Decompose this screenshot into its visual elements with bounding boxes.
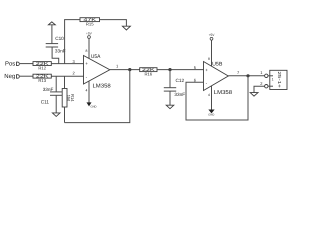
junction output node bbox=[128, 68, 131, 71]
supply +5V arrow top-left bbox=[48, 22, 55, 44]
wire U5A feedback rail bbox=[65, 70, 130, 123]
resistor R15 bbox=[80, 17, 100, 26]
wire Pos to R12 bbox=[20, 63, 33, 65]
svg-text:U5A: U5A bbox=[91, 54, 101, 60]
svg-text:R12: R12 bbox=[38, 65, 46, 70]
svg-text:8: 8 bbox=[86, 49, 88, 53]
wire R12 to U5A pin3 bbox=[51, 63, 83, 65]
svg-text:R14: R14 bbox=[70, 94, 75, 102]
svg-text:+: + bbox=[85, 61, 88, 66]
wire R15 right to gnd arrow bbox=[100, 20, 127, 27]
svg-text:4: 4 bbox=[86, 88, 88, 92]
resistor R12 bbox=[33, 61, 51, 70]
wire Neg to R13 bbox=[20, 75, 33, 77]
capacitor C11 bbox=[41, 87, 63, 104]
op-amp U5A bbox=[84, 54, 111, 89]
wire R15 left to Pos net bbox=[65, 20, 80, 64]
wire C10 to Pos net bbox=[52, 47, 59, 64]
svg-text:GND: GND bbox=[208, 113, 214, 116]
svg-text:R15: R15 bbox=[86, 21, 94, 26]
connector X2 bbox=[265, 70, 287, 89]
junction U5B output node bbox=[246, 74, 249, 77]
svg-text:+: + bbox=[205, 68, 208, 73]
svg-text:U5B: U5B bbox=[212, 62, 223, 68]
junction C12 node bbox=[168, 68, 171, 71]
resistor R14 vertical bbox=[62, 89, 75, 108]
svg-text:LM358: LM358 bbox=[93, 84, 111, 90]
svg-text:33nF: 33nF bbox=[43, 87, 54, 92]
svg-text:+5V: +5V bbox=[86, 31, 93, 35]
op-amp U5B bbox=[204, 62, 233, 97]
capacitor C12 bbox=[164, 78, 185, 97]
wire R13 to U5A pin2 bbox=[51, 75, 83, 77]
wire U5B output to connector bbox=[228, 75, 264, 77]
ground below U5A bbox=[87, 81, 96, 108]
ground arrow below C11 bbox=[52, 113, 60, 117]
svg-text:C10: C10 bbox=[55, 36, 64, 41]
ground arrow right of R15 bbox=[122, 26, 130, 30]
svg-text:R13: R13 bbox=[38, 78, 46, 83]
wire C12 to ground bbox=[169, 91, 171, 105]
wire R14 to feedback rail bbox=[64, 107, 66, 123]
svg-text:LM358: LM358 bbox=[214, 90, 232, 96]
resistor R13 bbox=[33, 74, 51, 83]
supply 5V over U5A bbox=[86, 31, 93, 58]
resistor R16 bbox=[140, 67, 157, 76]
svg-text:+5V: +5V bbox=[209, 33, 216, 37]
svg-text:C11: C11 bbox=[41, 100, 50, 105]
svg-text:C12: C12 bbox=[176, 78, 185, 83]
ground arrow at connector bbox=[250, 93, 258, 97]
wire R16 to U5B pin5 bbox=[157, 69, 204, 71]
svg-text:4: 4 bbox=[208, 93, 210, 97]
ground below U5B bbox=[208, 86, 214, 116]
node Neg connector pin bbox=[17, 75, 20, 79]
wire U5A output bbox=[110, 69, 140, 71]
wire node to C12 bbox=[169, 70, 171, 88]
svg-text:Neg: Neg bbox=[4, 73, 15, 80]
svg-text:GND: GND bbox=[91, 105, 97, 108]
ground arrow below C12 bbox=[166, 105, 174, 109]
wire U5B feedback loop bbox=[186, 76, 248, 120]
svg-text:25-1+: 25-1+ bbox=[277, 71, 282, 88]
svg-text:33nF: 33nF bbox=[174, 92, 185, 97]
svg-text:Pos: Pos bbox=[5, 61, 15, 68]
svg-text:33nF: 33nF bbox=[55, 48, 66, 53]
wire Neg net to R14 bbox=[64, 76, 66, 88]
node Pos connector pin bbox=[17, 62, 20, 66]
svg-text:R16: R16 bbox=[144, 71, 152, 76]
wire C11 to ground bbox=[55, 95, 57, 113]
capacitor C10 bbox=[46, 36, 66, 53]
supply 5V over U5B bbox=[209, 33, 216, 66]
svg-text:1: 1 bbox=[272, 78, 274, 82]
svg-text:8: 8 bbox=[208, 57, 210, 61]
wire Neg net to C11 bbox=[55, 76, 57, 92]
wire connector pin2 to ground bbox=[254, 86, 265, 92]
